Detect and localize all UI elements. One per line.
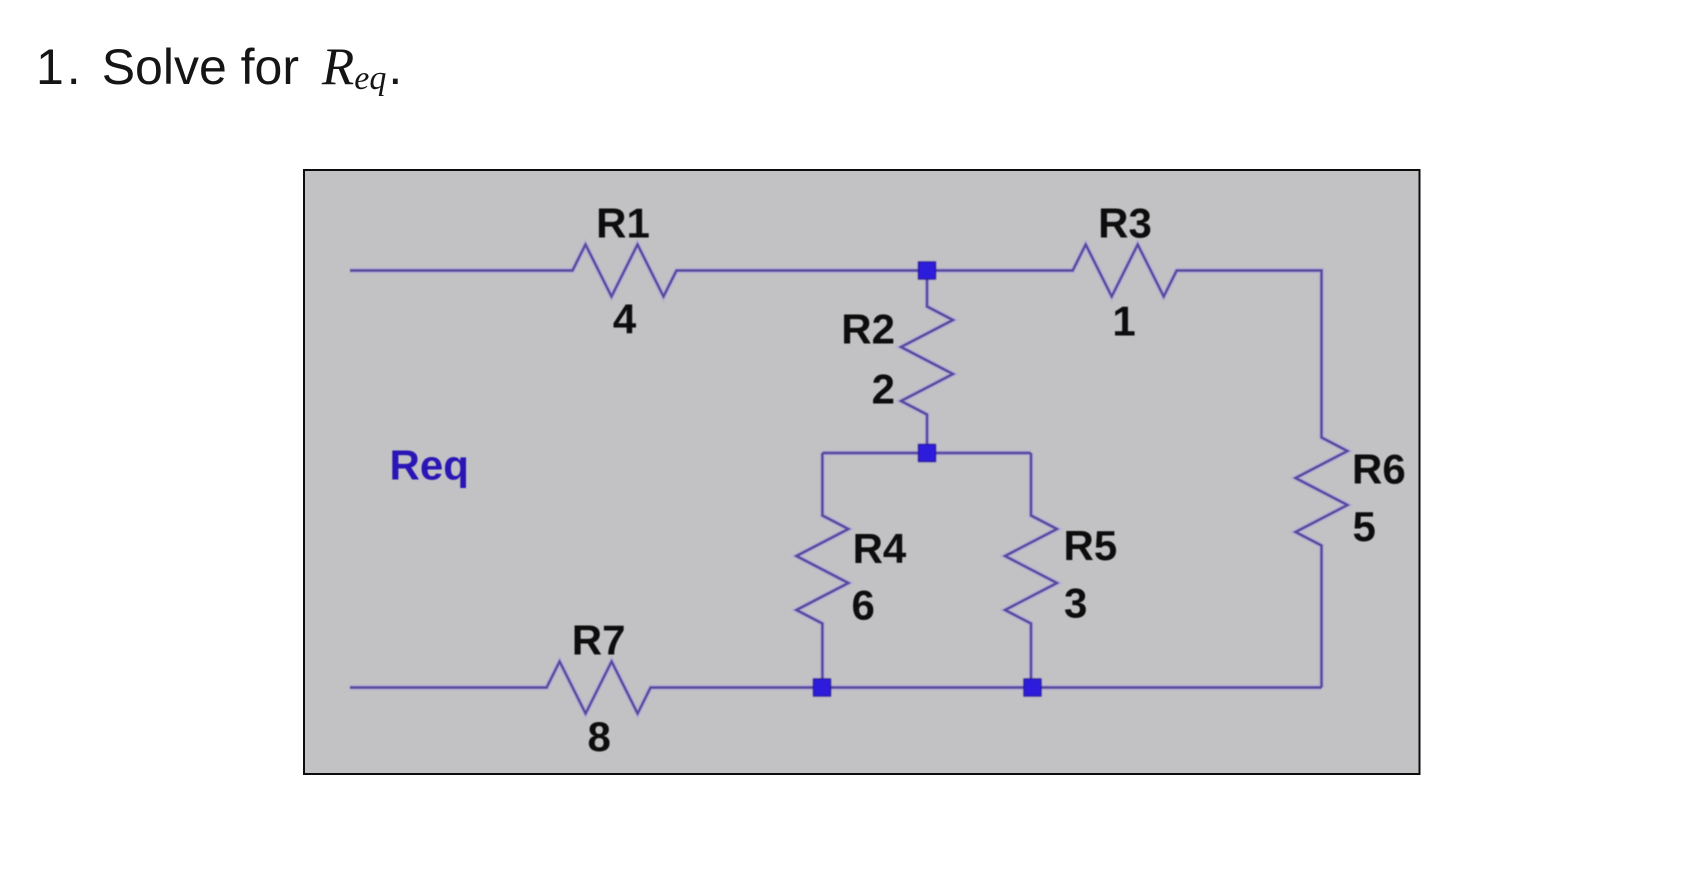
svg-text:8: 8 — [588, 713, 611, 760]
svg-text:2: 2 — [872, 366, 895, 413]
svg-text:3: 3 — [1064, 580, 1087, 627]
svg-text:R6: R6 — [1352, 446, 1406, 493]
svg-text:5: 5 — [1353, 503, 1376, 550]
svg-text:1: 1 — [1112, 298, 1135, 345]
svg-text:R5: R5 — [1064, 522, 1118, 569]
svg-text:R4: R4 — [853, 525, 907, 572]
svg-text:Req: Req — [390, 442, 469, 489]
svg-text:4: 4 — [613, 296, 637, 343]
svg-text:6: 6 — [852, 582, 875, 629]
svg-text:R3: R3 — [1098, 200, 1152, 247]
svg-text:R2: R2 — [841, 306, 895, 353]
svg-text:R1: R1 — [596, 200, 650, 247]
svg-text:R7: R7 — [572, 617, 626, 664]
